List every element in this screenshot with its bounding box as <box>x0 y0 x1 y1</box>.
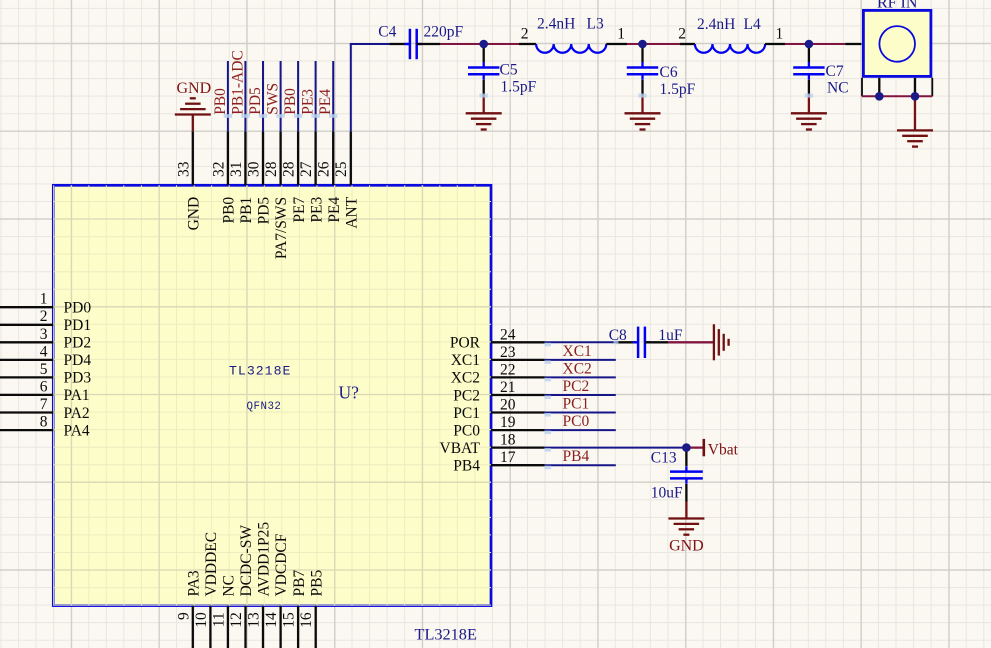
ground (C6) <box>625 113 661 129</box>
wire node A to L3 <box>484 43 519 45</box>
node D junction (VBAT) <box>682 443 691 452</box>
svg-text:ANT: ANT <box>343 196 360 228</box>
wire shield to ground <box>914 96 916 130</box>
svg-text:QFN32: QFN32 <box>247 401 282 413</box>
svg-text:PB0: PB0 <box>212 88 229 115</box>
power port Vbat <box>686 439 738 459</box>
svg-text:1: 1 <box>617 26 625 43</box>
svg-text:PC2: PC2 <box>563 378 590 395</box>
svg-text:28: 28 <box>281 161 298 177</box>
node B junction <box>638 40 647 49</box>
svg-text:1: 1 <box>776 26 784 43</box>
svg-text:GND: GND <box>669 538 704 555</box>
svg-text:PB0: PB0 <box>282 88 299 115</box>
ground (C8, rotated) <box>714 324 729 360</box>
svg-text:PB1: PB1 <box>238 197 255 224</box>
svg-text:11: 11 <box>210 612 227 627</box>
wire POR to C8 <box>545 341 616 343</box>
svg-text:C4: C4 <box>378 24 396 41</box>
U1 type text TL3218E <box>229 364 291 379</box>
svg-text:30: 30 <box>246 161 263 177</box>
wire net PB1-ADC (vertical) <box>244 61 246 131</box>
pin 32 PB0 stub (top) <box>210 131 237 223</box>
net label PB4 <box>563 448 590 465</box>
net label SWS <box>265 83 282 115</box>
net label XC1 <box>563 343 592 360</box>
svg-text:PD0: PD0 <box>64 300 92 317</box>
svg-text:PC1: PC1 <box>453 405 480 422</box>
svg-text:RF IN: RF IN <box>877 0 918 12</box>
wire net PC0 <box>545 429 616 431</box>
U1 designator U? <box>339 383 360 403</box>
svg-text:PE3: PE3 <box>308 197 325 223</box>
pin 3 PD2 stub <box>0 326 91 352</box>
svg-text:14: 14 <box>263 612 280 628</box>
capacitor C13 10uF <box>651 448 703 502</box>
pin 25 ANT stub (top) <box>333 131 360 228</box>
svg-text:PD3: PD3 <box>64 370 92 387</box>
svg-text:9: 9 <box>175 612 192 620</box>
wire C5 to ground <box>483 97 485 114</box>
svg-text:24: 24 <box>500 326 516 343</box>
wire L4 to node C <box>785 43 809 45</box>
node A junction <box>479 40 488 49</box>
pin 31 PB1 stub (top) <box>228 131 255 223</box>
svg-text:C6: C6 <box>660 64 678 81</box>
svg-text:L4: L4 <box>744 16 761 33</box>
pin 12 DCDC-SW stub (bottom) <box>228 525 255 648</box>
svg-text:PA7/SWS: PA7/SWS <box>273 197 290 259</box>
wire node B to L4 <box>643 43 681 45</box>
wire C8 to ground <box>668 341 714 343</box>
connector J1 RF pin stub <box>845 43 861 45</box>
svg-text:POR: POR <box>450 335 481 352</box>
svg-text:8: 8 <box>40 414 48 431</box>
op-amp U1 body TL3218E QFN32 <box>53 185 491 605</box>
svg-text:2.4nH: 2.4nH <box>697 16 735 33</box>
power port text GND (C13) <box>669 538 704 555</box>
pin 26 PE4 stub (top) <box>316 131 343 222</box>
svg-text:PD1: PD1 <box>64 317 92 334</box>
svg-text:VDDDEC: VDDDEC <box>203 532 220 597</box>
svg-text:PD5: PD5 <box>256 197 273 225</box>
wire net PE3 (vertical) <box>315 61 317 131</box>
svg-text:15: 15 <box>281 612 298 628</box>
net label PE3 <box>300 89 317 115</box>
svg-text:28: 28 <box>263 161 280 177</box>
wire C6 to ground <box>641 97 643 114</box>
U1 footprint text QFN32 <box>247 401 282 413</box>
connector J1 shield box <box>862 78 932 97</box>
svg-text:NC: NC <box>827 80 849 97</box>
svg-text:PD4: PD4 <box>64 352 92 369</box>
wire ANT vertical <box>350 44 352 131</box>
pin 2 PD1 stub <box>0 308 91 334</box>
ground (C7) <box>791 113 827 129</box>
svg-text:PA2: PA2 <box>64 405 90 422</box>
svg-text:4: 4 <box>40 343 48 360</box>
capacitor C4 <box>378 24 463 60</box>
capacitor C7 NC <box>793 44 848 97</box>
svg-text:12: 12 <box>228 612 245 628</box>
svg-text:16: 16 <box>298 612 315 628</box>
net label PC1 <box>563 396 590 413</box>
wire C7 to ground <box>808 97 810 114</box>
svg-text:PB7: PB7 <box>291 570 308 597</box>
svg-text:PC0: PC0 <box>563 413 590 430</box>
power port GND (pin 33) <box>175 80 211 131</box>
svg-text:NC: NC <box>221 575 238 597</box>
svg-text:21: 21 <box>500 379 516 396</box>
svg-text:GND: GND <box>176 80 211 97</box>
ground (J1 shield) <box>897 130 933 146</box>
svg-text:5: 5 <box>40 361 48 378</box>
svg-text:PB0: PB0 <box>221 197 238 224</box>
wire C13 to ground <box>685 502 687 519</box>
svg-text:31: 31 <box>228 162 245 178</box>
pin 27 PE3 stub (top) <box>298 131 325 222</box>
pin 18 VBAT stub <box>440 432 545 457</box>
connector J1 RF IN body <box>863 10 931 76</box>
svg-text:C13: C13 <box>651 450 677 467</box>
svg-text:XC1: XC1 <box>563 343 592 360</box>
wire net PB0 (vertical) <box>297 61 299 131</box>
net label PC0 <box>563 413 590 430</box>
svg-text:Vbat: Vbat <box>708 442 739 459</box>
net label PD5 <box>247 87 264 115</box>
wire net PB4 <box>545 464 616 466</box>
pin 14 VDCDCF stub (bottom) <box>263 533 290 648</box>
svg-text:XC1: XC1 <box>451 352 480 369</box>
wire VBAT <box>545 447 687 449</box>
pin 19 PC0 stub <box>453 414 545 439</box>
inductor L4 2.4nH <box>678 16 785 53</box>
node C junction <box>805 40 814 49</box>
svg-text:U?: U? <box>339 383 360 403</box>
svg-text:3: 3 <box>40 326 48 343</box>
pin 22 XC2 stub <box>451 361 545 386</box>
wire net PE4 (vertical) <box>332 61 334 131</box>
pin 11 NC stub (bottom) <box>210 575 237 648</box>
ground (C13) <box>668 519 704 535</box>
svg-text:220pF: 220pF <box>424 24 464 41</box>
svg-text:PB1-ADC: PB1-ADC <box>229 50 246 115</box>
svg-text:19: 19 <box>500 414 516 431</box>
svg-text:1: 1 <box>40 291 48 308</box>
ground (C5) <box>466 113 502 129</box>
svg-text:PE7: PE7 <box>291 197 308 223</box>
wire net XC1 <box>545 359 616 361</box>
svg-text:PE4: PE4 <box>317 89 334 115</box>
svg-text:PD2: PD2 <box>64 335 92 352</box>
pin 17 PB4 stub <box>453 449 545 474</box>
net label PB0 <box>282 88 299 115</box>
pin 6 PA1 stub <box>0 378 90 404</box>
svg-text:2.4nH: 2.4nH <box>537 16 575 33</box>
connector J1 label RF IN <box>877 0 918 12</box>
svg-text:PB4: PB4 <box>453 458 480 475</box>
pin 4 PD4 stub <box>0 343 91 369</box>
pin 13 AVDD1P25 stub (bottom) <box>246 522 273 648</box>
svg-text:2: 2 <box>521 26 529 43</box>
svg-text:DCDC-SW: DCDC-SW <box>238 525 255 597</box>
no-ERC markers <box>224 94 813 470</box>
svg-text:TL3218E: TL3218E <box>229 364 291 379</box>
svg-text:PE4: PE4 <box>326 197 343 223</box>
inductor L3 2.4nH <box>519 16 627 53</box>
wire net XC2 <box>545 376 616 378</box>
svg-text:PC1: PC1 <box>563 396 590 413</box>
svg-text:VDCDCF: VDCDCF <box>273 533 290 596</box>
pin 28 PE7 stub (top) <box>281 131 308 222</box>
pin 30 PD5 stub (top) <box>246 131 273 224</box>
svg-text:GND: GND <box>186 197 203 231</box>
svg-text:2: 2 <box>40 308 48 325</box>
wire ANT horizontal <box>350 43 390 45</box>
pin 10 VDDDEC stub (bottom) <box>193 532 220 648</box>
svg-text:AVDD1P25: AVDD1P25 <box>256 522 273 597</box>
svg-text:18: 18 <box>500 432 516 449</box>
svg-text:PB5: PB5 <box>308 570 325 597</box>
wire net PC1 <box>545 412 616 414</box>
svg-text:C5: C5 <box>500 62 518 79</box>
svg-text:XC2: XC2 <box>563 360 592 377</box>
svg-text:1.5pF: 1.5pF <box>501 79 537 96</box>
pin 15 PB7 stub (bottom) <box>281 570 308 648</box>
wire net PC2 <box>545 394 616 396</box>
wire net PB0 (vertical) <box>227 61 229 131</box>
svg-text:2: 2 <box>678 26 686 43</box>
svg-text:PA1: PA1 <box>64 387 90 404</box>
pin 5 PD3 stub <box>0 361 91 387</box>
svg-text:PA4: PA4 <box>64 422 90 439</box>
svg-text:25: 25 <box>333 161 350 177</box>
svg-text:22: 22 <box>500 361 516 378</box>
svg-text:32: 32 <box>210 162 227 178</box>
svg-text:6: 6 <box>40 378 48 395</box>
svg-text:TL3218E: TL3218E <box>415 625 477 644</box>
svg-text:PE3: PE3 <box>300 89 317 115</box>
wire net PD5 (vertical) <box>262 61 264 131</box>
pin 7 PA2 stub <box>0 396 90 422</box>
svg-text:17: 17 <box>500 449 516 466</box>
net label XC2 <box>563 360 592 377</box>
pin 8 PA4 stub <box>0 414 90 440</box>
wire node C to J1 <box>809 43 845 45</box>
pin 28 PA7/SWS stub (top) <box>263 131 290 259</box>
net label PC2 <box>563 378 590 395</box>
capacitor C5 <box>468 44 537 97</box>
net label PE4 <box>317 89 334 115</box>
pin 1 PD0 stub <box>0 291 91 317</box>
svg-text:PB4: PB4 <box>563 448 590 465</box>
pin 33 GND stub (top) <box>175 131 202 230</box>
wire L3 to node B <box>627 43 643 45</box>
svg-text:C7: C7 <box>826 63 844 80</box>
svg-text:10uF: 10uF <box>651 485 683 502</box>
pin 16 PB5 stub (bottom) <box>298 570 325 648</box>
svg-text:10: 10 <box>193 612 210 628</box>
svg-text:SWS: SWS <box>265 83 282 115</box>
svg-text:23: 23 <box>500 344 516 361</box>
svg-text:PC2: PC2 <box>453 387 480 404</box>
U1 part number label TL3218E <box>415 625 477 644</box>
svg-text:26: 26 <box>316 161 333 177</box>
pin 23 XC1 stub <box>451 344 545 369</box>
capacitor C6 <box>627 44 696 98</box>
junction J1 shield right <box>911 92 920 101</box>
svg-text:PC0: PC0 <box>453 422 480 439</box>
svg-text:27: 27 <box>298 161 315 177</box>
net label PB0 <box>212 88 229 115</box>
pin 9 PA3 stub (bottom) <box>175 570 202 648</box>
svg-text:XC2: XC2 <box>451 370 480 387</box>
svg-text:13: 13 <box>246 612 263 628</box>
net label PB1-ADC <box>229 50 246 115</box>
wire net SWS (vertical) <box>280 61 282 131</box>
svg-text:33: 33 <box>175 161 192 177</box>
junction J1 shield left <box>875 92 884 101</box>
pin 24 POR stub <box>450 326 545 351</box>
svg-text:7: 7 <box>40 396 48 413</box>
svg-text:VBAT: VBAT <box>440 440 481 457</box>
svg-text:20: 20 <box>500 397 516 414</box>
wire C4 to node A <box>440 43 484 45</box>
wire J1 shield <box>862 95 932 97</box>
pin 21 PC2 stub <box>453 379 545 404</box>
capacitor C8 1uF <box>609 327 683 358</box>
svg-text:1.5pF: 1.5pF <box>660 81 696 98</box>
svg-text:PA3: PA3 <box>186 570 203 596</box>
pin 20 PC1 stub <box>453 397 545 422</box>
svg-text:PD5: PD5 <box>247 87 264 115</box>
svg-text:L3: L3 <box>587 16 604 33</box>
